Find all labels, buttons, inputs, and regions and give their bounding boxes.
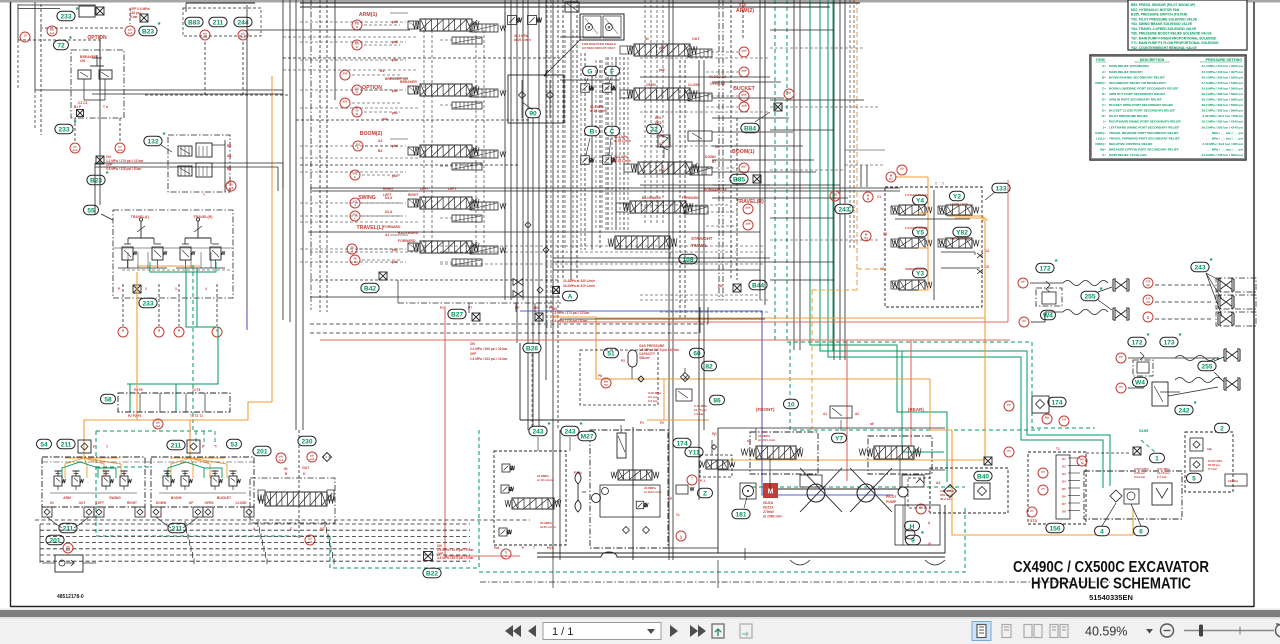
svg-text:0.04 bar: 0.04 bar (1134, 475, 1146, 479)
svg-text:ACTION CIRCUIT ONLY: ACTION CIRCUIT ONLY (582, 46, 615, 50)
svg-text:pb: pb (1021, 280, 1025, 284)
svg-text:pa4: pa4 (382, 117, 388, 121)
svg-text:B22: B22 (426, 570, 438, 577)
svg-text:243: 243 (838, 206, 849, 213)
svg-text:2-STAGE RELIEF: 2-STAGE RELIEF (905, 226, 928, 230)
svg-text:W4: W4 (1135, 379, 1145, 386)
svg-text:F: F (354, 175, 356, 179)
svg-text:Y66. PRESSURE BOOST RELIEF SO: Y66. PRESSURE BOOST RELIEF SOLENOID VALV… (1131, 32, 1212, 36)
svg-text:D1: D1 (1062, 457, 1066, 461)
svg-text:230: 230 (301, 438, 312, 445)
svg-text:K(RC)=: K(RC)= (1095, 131, 1106, 135)
svg-text:UP: UP (715, 145, 720, 149)
svg-text:LEFT: LEFT (96, 501, 104, 505)
svg-text:Y7: Y7 (835, 435, 843, 442)
svg-text:IN: IN (284, 467, 288, 471)
svg-text:173: 173 (1163, 339, 1174, 346)
svg-text:29.2 MPa / 292 bar / 4240 psi: 29.2 MPa / 292 bar / 4240 psi (1202, 120, 1244, 124)
svg-text:pc2: pc2 (659, 134, 665, 138)
svg-text:A2: A2 (1146, 283, 1150, 287)
svg-text:A1: A1 (385, 233, 389, 237)
svg-text:Y67. MAIN PUMP POWER PROPORTI: Y67. MAIN PUMP POWER PROPORTIONAL SOLENO… (1131, 36, 1217, 40)
svg-text:ARM OUT PORT SECONDARY RELIEF: ARM OUT PORT SECONDARY RELIEF (1109, 92, 1165, 96)
svg-text:ARM(1): ARM(1) (359, 12, 377, 18)
svg-text:pb6: pb6 (746, 206, 751, 210)
svg-text:T A: T A (103, 105, 109, 109)
svg-text:NEGATIVE CONTROL RELIEF: NEGATIVE CONTROL RELIEF (1109, 142, 1153, 146)
svg-text:B65. PRESS. SENSOR (PILOT BOO: B65. PRESS. SENSOR (PILOT BOOM UP) (1131, 3, 1195, 7)
svg-text:M37. HYDRAULIC MOTOR FAN: M37. HYDRAULIC MOTOR FAN (1131, 8, 1180, 12)
svg-text:0.2 bar: 0.2 bar (648, 399, 659, 403)
svg-text:3.92 MPa / 39.2 bar / 569 psi: 3.92 MPa / 39.2 bar / 569 psi (1202, 114, 1243, 118)
svg-text:at 100 L/min: at 100 L/min (758, 438, 776, 442)
svg-text:BOOM(2): BOOM(2) (360, 131, 383, 137)
svg-text:B(NC)=: B(NC)= (1095, 81, 1106, 85)
svg-text:1.6 MPa / 232 psi / 14 bar: 1.6 MPa / 232 psi / 14 bar (470, 357, 508, 361)
svg-text:A: A (356, 90, 358, 94)
svg-text:D3,A: D3,A (385, 210, 393, 214)
svg-text:P2: P2 (621, 359, 625, 363)
svg-text:PRESSURE SETTING: PRESSURE SETTING (1206, 58, 1243, 62)
svg-text:A3: A3 (936, 481, 940, 485)
svg-text:*: * (1210, 256, 1213, 265)
svg-text:*: * (1147, 331, 1150, 340)
svg-text:G=: G= (1102, 109, 1106, 113)
svg-text:H: H (834, 196, 836, 200)
svg-text:72: 72 (57, 42, 65, 49)
svg-text:10: 10 (787, 401, 795, 408)
svg-text:P-1: P-1 (700, 479, 705, 483)
svg-text:5: 5 (1192, 475, 1196, 482)
svg-text:BUCKET OPEN PORT SECONDARY REL: BUCKET OPEN PORT SECONDARY RELIEF (1109, 103, 1173, 107)
svg-text:pa4: pa4 (392, 89, 398, 93)
svg-text:ps9: ps9 (229, 186, 234, 190)
svg-text:A2: A2 (855, 412, 859, 416)
svg-text:MAIN RELIEF VALVE FAN: MAIN RELIEF VALVE FAN (1109, 153, 1147, 157)
svg-text:a9: a9 (870, 422, 874, 426)
svg-text:at 100 L/min: at 100 L/min (644, 490, 662, 494)
svg-text:A3: A3 (378, 139, 382, 143)
svg-text:pa9: pa9 (742, 69, 747, 73)
svg-text:BUCKET CLOSE PORT SECONDARY RE: BUCKET CLOSE PORT SECONDARY RELIEF (1109, 109, 1175, 113)
svg-text:D=: D= (1102, 92, 1106, 96)
svg-text:39.2 MPa / 392 bar / 5690 psi: 39.2 MPa / 392 bar / 5690 psi (1202, 109, 1244, 113)
svg-text:40.59%: 40.59% (1085, 625, 1127, 639)
svg-text:3: 3 (175, 287, 177, 291)
svg-text:D: D (356, 25, 358, 29)
svg-text:*: * (580, 420, 583, 429)
svg-text:B40: B40 (977, 473, 989, 480)
svg-text:233: 233 (60, 13, 71, 20)
svg-text:ps1: ps1 (50, 31, 55, 35)
svg-text:Ma: Ma (1045, 416, 1049, 420)
svg-text:pb: pb (1119, 355, 1123, 359)
svg-text:ps1: ps1 (128, 31, 133, 35)
svg-text:T: T (935, 182, 937, 186)
svg-text:A=: A= (1102, 64, 1106, 68)
svg-text:P4: P4 (864, 236, 868, 240)
svg-text:BUCKET: BUCKET (217, 496, 232, 500)
svg-text:MAIN RELIEF (BOOST): MAIN RELIEF (BOOST) (1109, 70, 1143, 74)
svg-text:ISUZU: ISUZU (763, 501, 774, 505)
svg-text:OUT: OUT (79, 501, 86, 505)
svg-text:243: 243 (532, 428, 543, 435)
svg-text:D4: D4 (1062, 480, 1066, 484)
svg-text:SWING: SWING (358, 195, 376, 201)
svg-text:ON: ON (470, 342, 475, 346)
svg-text:B27: B27 (451, 311, 463, 318)
svg-text:Y4: Y4 (916, 197, 924, 204)
svg-text:N(NC)=: N(NC)= (1095, 142, 1106, 146)
svg-text:233: 233 (142, 300, 153, 307)
svg-text:169/31μ: 169/31μ (1228, 479, 1239, 483)
svg-text:P1: P1 (640, 421, 644, 425)
svg-text:pb1: pb1 (392, 248, 398, 252)
svg-text:ON: ON (80, 59, 86, 63)
svg-text:ps1: ps1 (203, 35, 208, 39)
svg-text:Y82. COUNTERWEIGHT REMOVAL VA: Y82. COUNTERWEIGHT REMOVAL VALVE (1131, 46, 1197, 50)
svg-text:C=: C= (1102, 86, 1106, 90)
svg-text:ps1: ps1 (279, 458, 284, 462)
svg-text:4.5 MPa / 43.5 psi / 3 bar: 4.5 MPa / 43.5 psi / 3 bar (437, 556, 474, 560)
svg-text:PT: PT (468, 306, 472, 310)
svg-text:A=: A= (1102, 70, 1106, 74)
svg-text:39.2 MPa / 392 bar / 5690 psi: 39.2 MPa / 392 bar / 5690 psi (1202, 75, 1244, 79)
svg-text:Z=: Z= (1102, 153, 1106, 157)
svg-text:Y64. TRAVEL 2-SPEED SOLENOID: Y64. TRAVEL 2-SPEED SOLENOID VALVE (1131, 27, 1197, 31)
svg-text:*: * (158, 20, 161, 29)
svg-text:DOWN: DOWN (705, 155, 716, 159)
svg-text:18μ: 18μ (1207, 447, 1212, 451)
svg-text:90: 90 (529, 110, 537, 117)
svg-text:(FRONT): (FRONT) (756, 407, 775, 412)
svg-text:B42: B42 (364, 285, 376, 292)
svg-text:OFF: OFF (470, 352, 476, 356)
svg-text:242: 242 (1178, 407, 1189, 414)
svg-text:pa: pa (1022, 319, 1026, 323)
svg-text:330cm³: 330cm³ (639, 356, 650, 360)
svg-text:ITEM: ITEM (1096, 58, 1105, 62)
svg-text:ps1: ps1 (310, 457, 315, 461)
svg-text:M: M (608, 26, 611, 30)
svg-text:ps1: ps1 (241, 35, 246, 39)
svg-text:T: T (691, 477, 693, 481)
svg-text:255: 255 (1084, 293, 1095, 300)
svg-text:147: 147 (1062, 418, 1067, 422)
svg-text:DOWN: DOWN (156, 501, 167, 505)
svg-text:201: 201 (49, 537, 60, 544)
svg-text:T1: T1 (1056, 447, 1060, 451)
svg-text:39.2 MPa / 392 bar / 5690 psi: 39.2 MPa / 392 bar / 5690 psi (1202, 98, 1244, 102)
svg-text:TRAVEL FORWARD PORT SECONDARY: TRAVEL FORWARD PORT SECONDARY RELIEF (1109, 136, 1180, 140)
svg-text:M: M (537, 19, 540, 23)
svg-text:211: 211 (172, 525, 183, 532)
svg-text:133: 133 (995, 185, 1006, 192)
svg-text:*: * (69, 34, 72, 43)
svg-text:172: 172 (1039, 265, 1050, 272)
svg-text:Z: Z (703, 490, 707, 497)
svg-text:M: M (588, 26, 591, 30)
svg-text:6UZ1X: 6UZ1X (763, 506, 774, 510)
svg-text:HYDRAULIC SCHEMATIC: HYDRAULIC SCHEMATIC (1031, 576, 1191, 593)
svg-text:FORWARD: FORWARD (682, 196, 699, 200)
svg-text:TRAVEL(L): TRAVEL(L) (357, 225, 384, 231)
svg-text:Y71. MAIN PUMP P1 FLOW PROPOR: Y71. MAIN PUMP P1 FLOW PROPORTIONAL SOLE… (1131, 41, 1219, 45)
svg-text:24.8 MPa / 248 bar / 3600 psi: 24.8 MPa / 248 bar / 3600 psi (1202, 86, 1244, 90)
svg-text:at 20 L/min: at 20 L/min (590, 109, 607, 113)
svg-text:M: M (644, 504, 646, 508)
svg-text:Y5: Y5 (916, 229, 924, 236)
svg-text:174: 174 (676, 440, 687, 447)
svg-text:A1: A1 (227, 154, 231, 158)
svg-text:ARM: ARM (63, 496, 71, 500)
svg-text:B4: B4 (380, 69, 384, 73)
svg-text:13: 13 (23, 34, 27, 38)
svg-text:C4: C4 (985, 249, 989, 253)
svg-text:pa: pa (1041, 487, 1045, 491)
svg-text:B=: B= (1102, 75, 1106, 79)
svg-text:B1: B1 (227, 144, 231, 148)
svg-text:___ MPa /___ bar /___ psi: ___ MPa /___ bar /___ psi (1205, 147, 1243, 151)
svg-text:B2: B2 (919, 506, 923, 510)
svg-text:55: 55 (87, 207, 95, 214)
svg-text:___ MPa /___ bar /___ psi: ___ MPa /___ bar /___ psi (1205, 136, 1243, 140)
svg-text:M: M (768, 489, 774, 496)
svg-text:at 2080 min¹: at 2080 min¹ (763, 515, 783, 519)
svg-text:C3: C3 (883, 232, 887, 236)
svg-text:B85: B85 (733, 176, 745, 183)
svg-text:51540335EN: 51540335EN (1089, 593, 1133, 602)
svg-text:B7: B7 (712, 160, 716, 164)
svg-text:1 / 1: 1 / 1 (552, 626, 573, 638)
svg-text:PILOT PRESSURE RELIEF: PILOT PRESSURE RELIEF (1109, 114, 1148, 118)
svg-text:R: R (867, 197, 869, 201)
svg-text:L(VL)=: L(VL)= (1096, 136, 1106, 140)
svg-text:XL: XL (928, 542, 932, 546)
svg-text:pb: pb (1007, 403, 1011, 407)
svg-text:5.7 bar: 5.7 bar (1208, 467, 1218, 471)
svg-text:201: 201 (256, 448, 267, 455)
svg-text:T4 T5: T4 T5 (192, 388, 201, 392)
svg-text:F=: F= (1102, 103, 1106, 107)
svg-text:156: 156 (1049, 525, 1060, 532)
svg-text:PILOT: PILOT (886, 495, 897, 499)
svg-text:37.8 MPa / 378 bar / 5480 psi: 37.8 MPa / 378 bar / 5480 psi (1202, 81, 1244, 85)
svg-text:*: * (1194, 399, 1197, 408)
svg-text:Y82: Y82 (956, 229, 968, 236)
svg-text:pb: pb (1041, 470, 1045, 474)
svg-text:211: 211 (171, 442, 182, 449)
svg-text:C5: C5 (985, 265, 989, 269)
svg-text:P3: P3 (604, 383, 608, 387)
svg-text:D6: D6 (1062, 495, 1066, 499)
svg-text:I=: I= (1103, 120, 1106, 124)
svg-text:8 bar: 8 bar (130, 15, 138, 19)
svg-text:ps3: ps3 (73, 148, 78, 152)
svg-text:P2: P2 (660, 421, 664, 425)
svg-text:MAIN RELIEF (STANDARD): MAIN RELIEF (STANDARD) (1109, 64, 1149, 68)
svg-text:*: * (1055, 257, 1058, 266)
svg-text:B23: B23 (90, 177, 102, 184)
svg-text:B3: B3 (378, 149, 382, 153)
svg-text:ARM IN PORT SECONDARY RELIEF: ARM IN PORT SECONDARY RELIEF (1109, 98, 1162, 102)
svg-text:STRAIGHT: STRAIGHT (691, 236, 713, 241)
svg-text:270kW: 270kW (763, 510, 775, 514)
svg-text:B165. PRESSURE SWITCH (FILTER): B165. PRESSURE SWITCH (FILTER) (1131, 13, 1187, 17)
svg-text:BOOM: BOOM (171, 496, 182, 500)
svg-text:T: T (533, 546, 535, 550)
svg-text:A7: A7 (659, 142, 663, 146)
svg-text:BREAKER OPTION PORT SECONDARY: BREAKER OPTION PORT SECONDARY RELIEF (1109, 147, 1179, 151)
svg-text:Ta: Ta (1080, 461, 1084, 465)
svg-text:Pj1: Pj1 (712, 432, 717, 436)
svg-text:Pb1: Pb1 (547, 546, 553, 550)
svg-text:at 65 L/min: at 65 L/min (540, 525, 556, 529)
svg-text:3.33 MPa / 33.3 bar / 480 psi: 3.33 MPa / 33.3 bar / 480 psi (1202, 142, 1243, 146)
svg-text:B23: B23 (142, 28, 154, 35)
svg-text:H=: H= (1102, 114, 1106, 118)
svg-text:6: 6 (1139, 528, 1143, 535)
svg-text:51: 51 (607, 350, 615, 357)
svg-text:*: * (548, 420, 551, 429)
svg-text:CLOSE: CLOSE (236, 501, 247, 505)
svg-text:B2: B2 (227, 167, 231, 171)
svg-text:255: 255 (343, 100, 348, 104)
svg-text:233: 233 (58, 126, 69, 133)
svg-text:B83: B83 (188, 19, 200, 26)
svg-text:pa3: pa3 (392, 174, 398, 178)
svg-text:P2 P2 P1: P2 P2 P1 (128, 414, 142, 418)
svg-text:ARM(2): ARM(2) (736, 8, 754, 14)
svg-text:*: * (1179, 331, 1182, 340)
svg-text:DESCRIPTION: DESCRIPTION (1140, 58, 1165, 62)
svg-text:BOOM RAISING SECONDARY RELIEF: BOOM RAISING SECONDARY RELIEF (1109, 75, 1165, 79)
svg-text:Bk=: Bk= (1100, 147, 1106, 151)
svg-text:M: M (517, 19, 520, 23)
svg-text:4: 4 (1100, 528, 1104, 535)
svg-text:29.2 MPa / 292 bar / 4240 psi: 29.2 MPa / 292 bar / 4240 psi (1202, 125, 1244, 129)
svg-text:pa6: pa6 (746, 222, 751, 226)
svg-text:Pa1: Pa1 (494, 546, 500, 550)
svg-text:G: G (587, 68, 592, 75)
svg-text:SWING: SWING (109, 496, 121, 500)
svg-text:174: 174 (1051, 399, 1062, 406)
svg-text:P8: P8 (598, 374, 602, 378)
svg-text:E=: E= (1102, 98, 1106, 102)
svg-text:C: C (357, 146, 359, 150)
svg-text:RIGHT: RIGHT (408, 193, 419, 197)
svg-text:48512178-0: 48512178-0 (57, 594, 84, 600)
svg-text:SWING BRAKE: SWING BRAKE (905, 267, 925, 271)
svg-text:0.7 bar: 0.7 bar (1157, 475, 1168, 479)
svg-text:pb9: pb9 (659, 46, 665, 50)
svg-text:D2: D2 (1062, 465, 1066, 469)
svg-text:STD: STD (1030, 519, 1038, 523)
svg-text:2-STAGE TRAVEL: 2-STAGE TRAVEL (905, 193, 929, 197)
svg-text:172: 172 (1131, 339, 1142, 346)
svg-text:M27: M27 (581, 433, 594, 440)
svg-text:PUMP: PUMP (886, 500, 897, 504)
svg-text:P4 P5: P4 P5 (134, 388, 143, 392)
svg-text:P1: P1 (440, 306, 444, 310)
svg-text:2: 2 (145, 287, 147, 291)
svg-text:pb7: pb7 (742, 165, 747, 169)
svg-text:pb7: pb7 (659, 168, 665, 172)
svg-text:4: 4 (205, 287, 207, 291)
svg-text:S159: S159 (1139, 428, 1149, 433)
svg-text:BREAKER: BREAKER (400, 80, 417, 84)
svg-text:Y62. PILOT PRESSURE SOLENOID: Y62. PILOT PRESSURE SOLENOID VALVE (1131, 17, 1198, 21)
svg-text:L: L (354, 216, 356, 220)
svg-text:B26: B26 (526, 345, 538, 352)
svg-text:BOOM LOWERING PORT SECONDARY R: BOOM LOWERING PORT SECONDARY RELIEF (1109, 86, 1178, 90)
svg-text:LEFT: LEFT (383, 193, 392, 197)
svg-text:34.3 MPa / 343 bar / 4975 psi: 34.3 MPa / 343 bar / 4975 psi (1202, 70, 1244, 74)
svg-text:OUT: OUT (302, 466, 310, 470)
svg-text:21.4MPa at 340 L/min: 21.4MPa at 340 L/min (563, 279, 595, 283)
svg-text:B84: B84 (744, 125, 756, 132)
svg-text:B: B (590, 128, 595, 135)
svg-text:pa: pa (1119, 385, 1123, 389)
svg-text:ps1: ps1 (308, 540, 313, 544)
svg-text:pa9: pa9 (659, 68, 665, 72)
svg-text:Y63. SWING BRAKE SOLENOID VAL: Y63. SWING BRAKE SOLENOID VALVE (1131, 22, 1193, 26)
svg-text:T: T (942, 182, 944, 186)
svg-text:pb: pb (900, 167, 904, 171)
svg-text:pc: pc (1030, 509, 1034, 513)
svg-text:IN: IN (645, 37, 649, 41)
svg-text:2.0 MPa / 290 psi / 20 bar: 2.0 MPa / 290 psi / 20 bar (470, 347, 508, 351)
svg-text:39.2 MPa / 392 bar / 5690 psi: 39.2 MPa / 392 bar / 5690 psi (1202, 103, 1244, 107)
svg-text:Y3: Y3 (916, 270, 924, 277)
svg-text:211: 211 (63, 525, 74, 532)
svg-text:RIGHT: RIGHT (127, 501, 137, 505)
svg-text:TRAVEL: TRAVEL (691, 243, 708, 248)
svg-text:at 10 L/min: at 10 L/min (537, 478, 553, 482)
svg-text:243: 243 (1194, 264, 1205, 271)
svg-text:53: 53 (230, 441, 238, 448)
svg-text:60: 60 (693, 350, 701, 357)
svg-text:Ma: Ma (787, 91, 791, 95)
svg-text:CX490C / CX500C EXCAVATOR: CX490C / CX500C EXCAVATOR (1013, 559, 1209, 576)
svg-text:LEFTWARD SWING PORT SECONDARY: LEFTWARD SWING PORT SECONDARY RELIEF (1109, 125, 1179, 129)
svg-text:*: * (76, 5, 79, 14)
svg-text:B: B (356, 112, 358, 116)
svg-text:W4: W4 (1043, 312, 1053, 319)
svg-text:243: 243 (564, 428, 575, 435)
svg-text:34.2MPa at 310 L/min: 34.2MPa at 310 L/min (563, 284, 595, 288)
svg-text:1: 1 (1155, 455, 1159, 462)
svg-text:pa: pa (1007, 449, 1011, 453)
svg-text:A: A (568, 293, 573, 300)
svg-text:E: E (356, 45, 358, 49)
svg-text:211: 211 (61, 441, 72, 448)
svg-text:pb8: pb8 (742, 93, 747, 97)
svg-text:pb9: pb9 (742, 49, 747, 53)
svg-text:C1: C1 (877, 195, 881, 199)
svg-text:*: * (921, 529, 924, 538)
svg-text:at 20 L/min: at 20 L/min (514, 38, 531, 42)
svg-text:A: A (505, 554, 507, 558)
svg-text:Y2: Y2 (953, 193, 961, 200)
svg-text:*: * (1100, 285, 1103, 294)
svg-text:TRAVEL REVERSE PORT SECONDARY: TRAVEL REVERSE PORT SECONDARY RELIEF (1109, 131, 1179, 135)
svg-text:OPEN: OPEN (204, 501, 214, 505)
svg-text:132: 132 (147, 138, 158, 145)
svg-text:FORWARD: FORWARD (398, 239, 416, 243)
svg-text:2: 2 (1220, 425, 1224, 432)
svg-text:___ MPa /___ bar /___ psi: ___ MPa /___ bar /___ psi (1205, 131, 1243, 135)
